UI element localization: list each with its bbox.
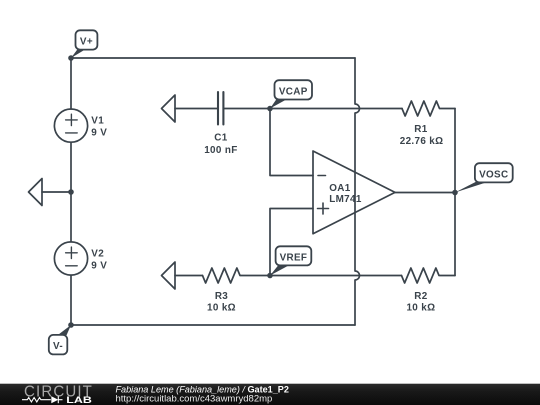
svg-text:VCAP: VCAP [279,86,308,97]
svg-text:V+: V+ [80,37,93,48]
svg-text:R1: R1 [414,124,427,135]
svg-text:LAB: LAB [66,395,92,405]
svg-text:OA1: OA1 [329,183,351,194]
svg-text:VREF: VREF [280,252,308,263]
svg-text:C1: C1 [214,133,227,144]
svg-text:R2: R2 [414,291,427,302]
svg-text:10 kΩ: 10 kΩ [406,303,435,314]
svg-text:LM741: LM741 [329,194,362,205]
svg-text:9 V: 9 V [91,261,107,272]
svg-text:9 V: 9 V [91,128,107,139]
svg-text:V-: V- [53,341,63,352]
svg-text:100 nF: 100 nF [204,145,237,156]
svg-text:R3: R3 [215,291,228,302]
svg-text:VOSC: VOSC [479,169,508,180]
svg-text:10 kΩ: 10 kΩ [207,303,236,314]
svg-text:http://circuitlab.com/c43awmry: http://circuitlab.com/c43awmryd82mp [116,393,273,404]
svg-text:V1: V1 [91,115,104,126]
svg-text:V2: V2 [91,248,104,259]
svg-text:22.76 kΩ: 22.76 kΩ [400,136,444,147]
